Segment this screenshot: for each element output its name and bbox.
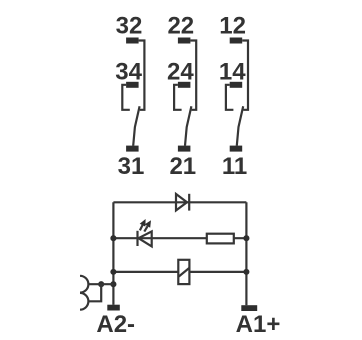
wire left bus	[112, 202, 114, 304]
wire right bus	[245, 202, 247, 305]
svg-text:24: 24	[167, 59, 194, 86]
wire 14 to NO fixed contact	[226, 85, 234, 110]
svg-text:14: 14	[219, 59, 246, 86]
wire connector node to bus	[88, 283, 113, 285]
terminal A2	[107, 305, 120, 311]
junction dot left middle	[110, 235, 116, 241]
wire 12 to NC fixed contact	[242, 41, 248, 110]
terminal 34	[126, 82, 139, 88]
terminal 31	[126, 146, 139, 152]
junction dot connector node	[98, 281, 104, 287]
contact blade common 21	[185, 106, 191, 145]
wire top branch	[113, 201, 246, 203]
contact blade common 31	[133, 106, 139, 145]
junction dot left bottom	[110, 269, 116, 275]
svg-text:A2-: A2-	[96, 311, 135, 338]
terminal 24	[178, 82, 191, 88]
relay coil K1	[178, 260, 189, 284]
terminal 14	[230, 82, 243, 88]
wire 34 to NO fixed contact	[122, 85, 130, 110]
wire bottom branch	[113, 271, 246, 273]
svg-text:21: 21	[169, 153, 196, 180]
svg-text:11: 11	[222, 153, 247, 180]
svg-text:34: 34	[115, 59, 142, 86]
svg-text:A1+: A1+	[236, 311, 281, 338]
LED indicator	[138, 219, 152, 246]
terminal 32	[126, 38, 139, 44]
wire middle branch	[113, 237, 246, 239]
svg-text:12: 12	[219, 12, 246, 39]
contact blade common 11	[237, 106, 243, 145]
resistor R1	[207, 234, 234, 244]
svg-text:31: 31	[118, 153, 145, 180]
junction dot right bottom	[243, 269, 249, 275]
terminal A1	[241, 305, 257, 311]
svg-text:32: 32	[116, 12, 143, 39]
junction dot right middle	[243, 235, 249, 241]
socket contact lower	[80, 293, 88, 310]
wire 24 to NO fixed contact	[174, 85, 182, 110]
wire 22 to NC fixed contact	[190, 41, 196, 110]
diode V1	[176, 194, 189, 211]
terminal 11	[230, 146, 243, 152]
terminal 21	[178, 146, 191, 152]
socket contact upper	[80, 276, 88, 293]
terminal 12	[230, 38, 243, 44]
wire lower socket to node	[88, 284, 101, 301]
wire 32 to NC fixed contact	[139, 41, 145, 110]
svg-text:22: 22	[167, 12, 194, 39]
junction dot bus connector	[110, 281, 116, 287]
terminal 22	[178, 38, 191, 44]
